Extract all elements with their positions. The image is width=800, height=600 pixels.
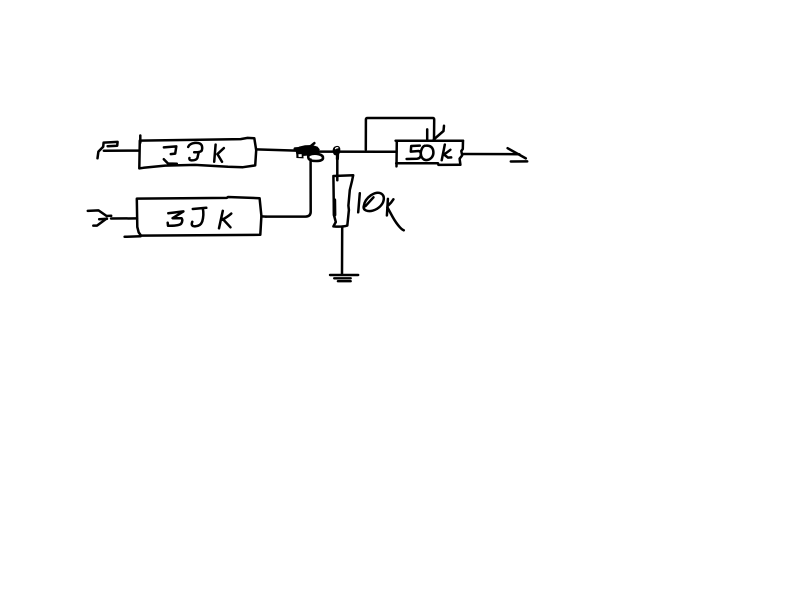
node junction J1 (scribbled solder blob) (295, 143, 323, 161)
resistor R1 33k (box) (139, 136, 256, 169)
wire R1 to junction node (256, 149, 300, 150)
potentiometer VR1 50k (box) (396, 141, 463, 167)
resistor R2 33k (box) (125, 197, 262, 237)
wiper arrow into potentiometer (427, 126, 444, 140)
wire junction J1 down to R2 output (266, 160, 311, 217)
output arrowhead (508, 148, 528, 161)
wire R3 to ground (341, 227, 344, 274)
wire IN1 to R1 (104, 149, 139, 152)
value label 10k (R3) (358, 193, 404, 231)
input arrow IN1 (top-left squiggle arrow) (98, 142, 118, 158)
resistor R3 10k (vertical box) (333, 175, 353, 226)
wire junction to 50k box (318, 150, 397, 153)
wire R2 output (right side, horizontal into corner) (262, 215, 266, 218)
feedback loop wire (pot top strap) (366, 118, 434, 150)
wire 50k output (463, 153, 519, 156)
value label 50k (VR1) (407, 145, 452, 161)
wire IN2 to R2 (111, 217, 137, 220)
input arrow IN2 (lower-left arrow) (88, 210, 111, 225)
value label 33k (R2) (168, 208, 232, 229)
ground symbol (330, 275, 358, 281)
node junction J2 (dot with drop wire) (333, 146, 341, 180)
value label 33k (R1) (164, 143, 224, 164)
